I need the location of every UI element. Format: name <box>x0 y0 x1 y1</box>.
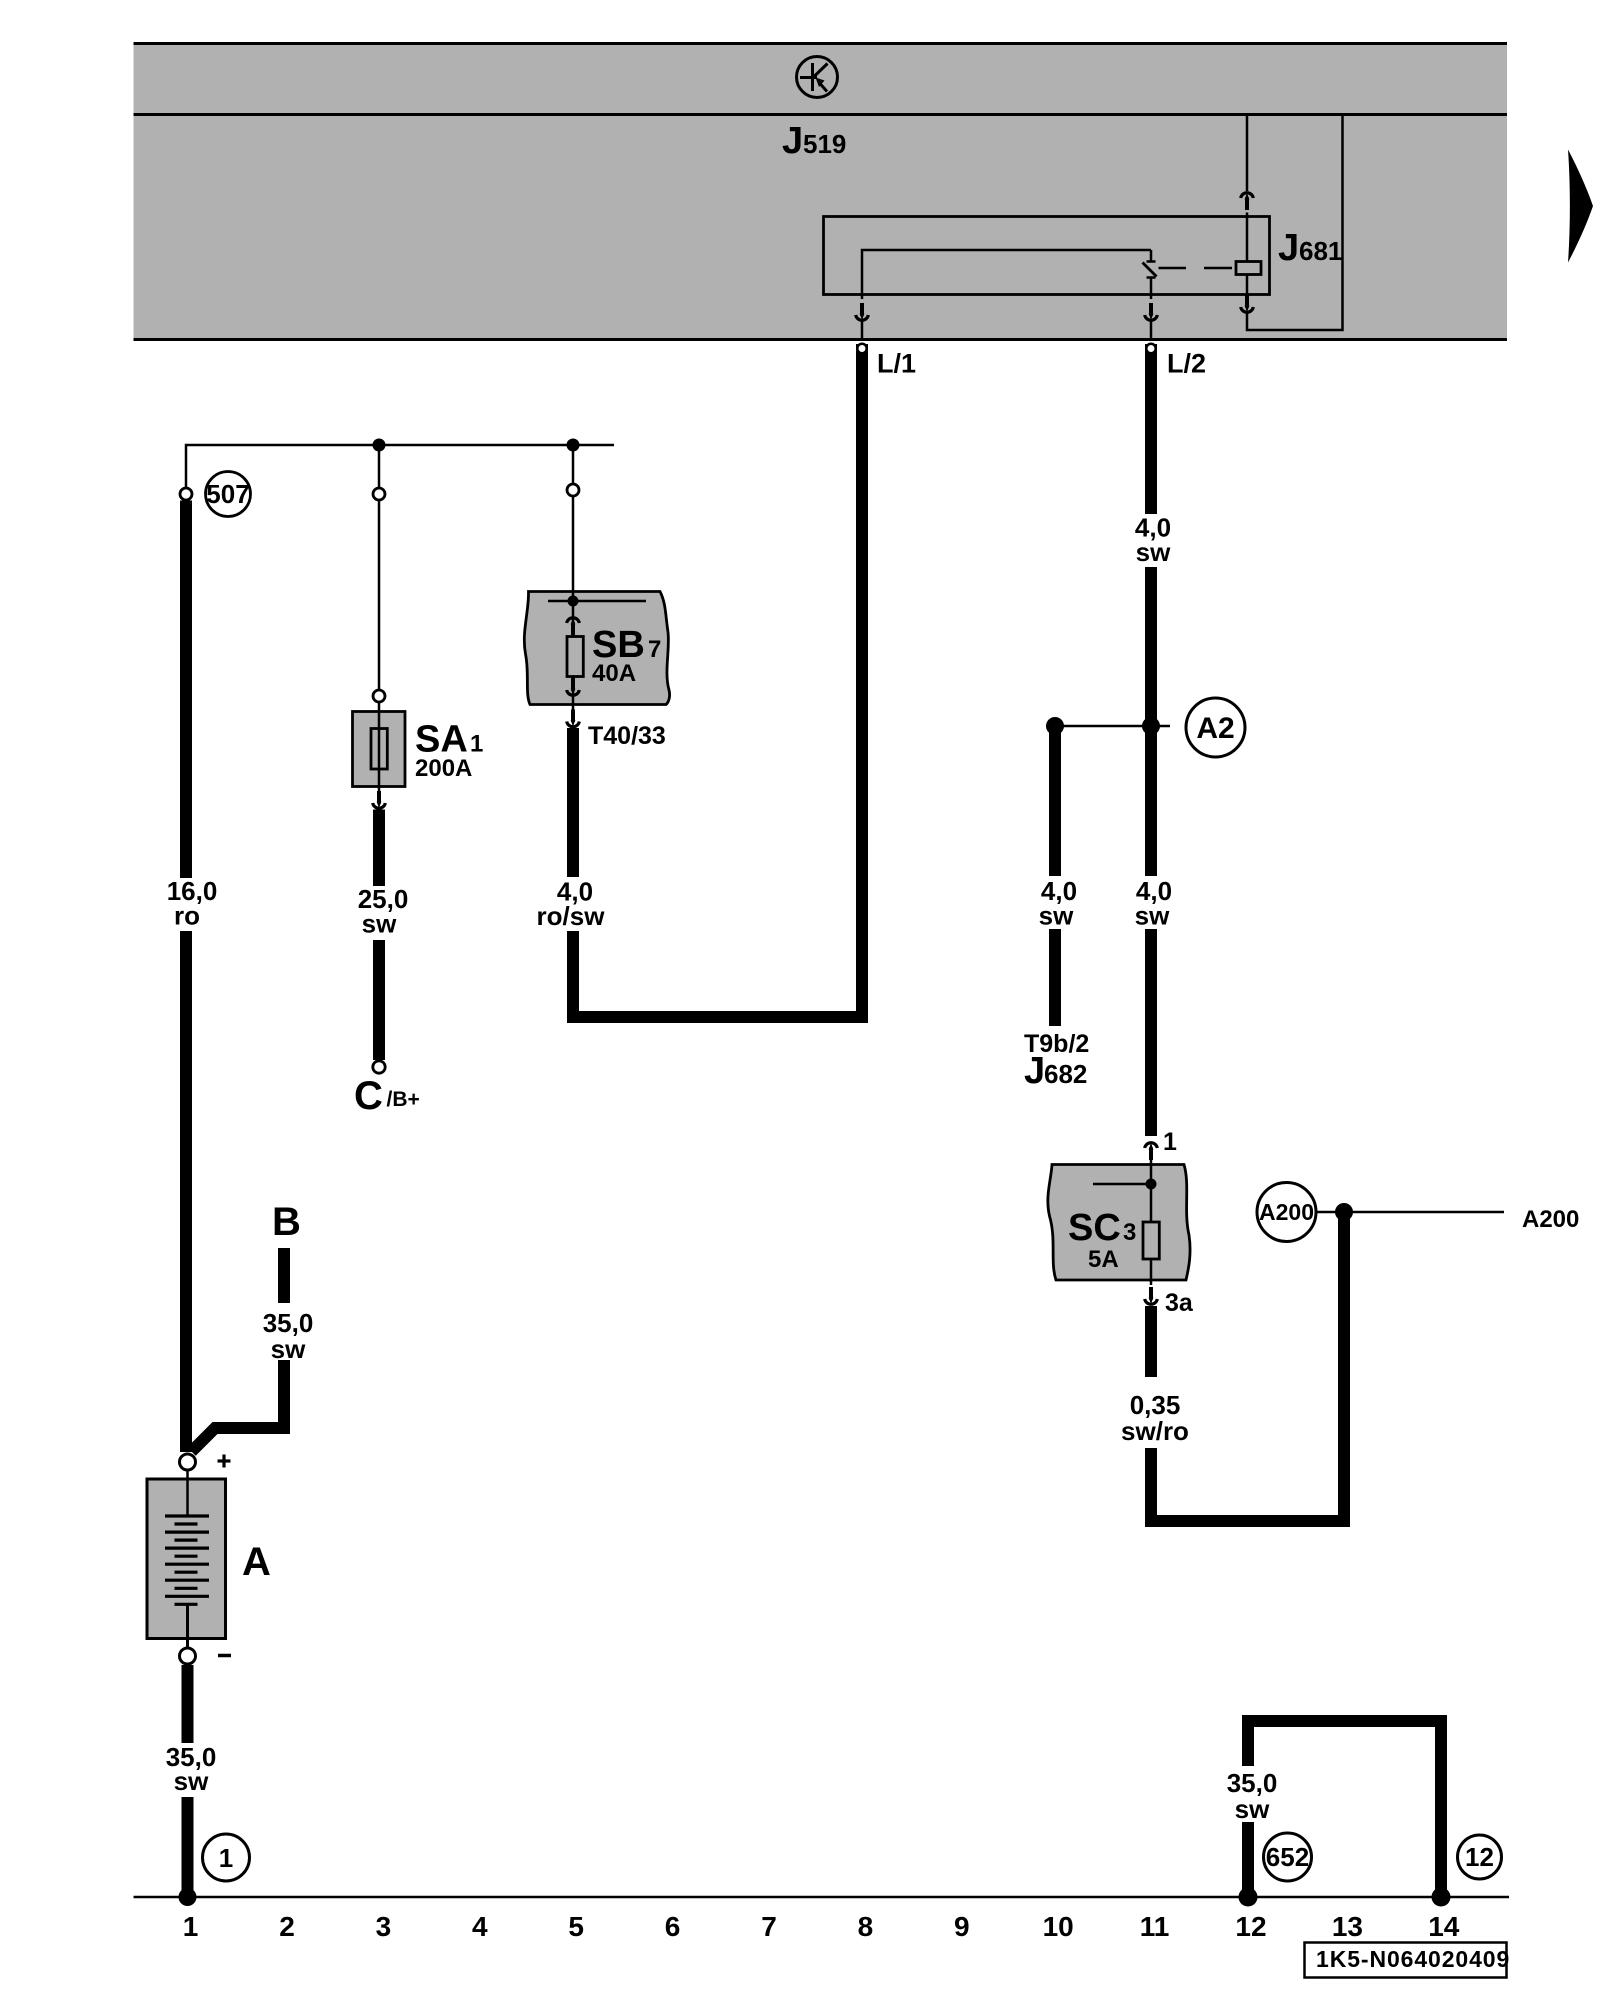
svg-text:1: 1 <box>219 1843 233 1873</box>
wire 0,35 sw/ro loop to node A200 <box>1151 1213 1344 1521</box>
wire from B to battery positive <box>192 1360 285 1452</box>
wire from fuse SC3 to box edge <box>1150 1259 1153 1285</box>
minus sign <box>218 1654 231 1658</box>
battery cell plates <box>165 1516 209 1604</box>
svg-text:A200: A200 <box>1259 1199 1314 1225</box>
connector arrow down at output L/1 <box>856 303 869 320</box>
svg-text:14: 14 <box>1428 1911 1460 1942</box>
wire 16,0 ro lower segment <box>180 931 192 1452</box>
branch wire to node A2 <box>1055 725 1170 728</box>
svg-text:A2: A2 <box>1196 712 1234 745</box>
thick wire 4,0 ro/sw from T40/33 <box>567 728 579 877</box>
terminal symbol K in circle <box>797 57 838 98</box>
ground junction dot battery <box>179 1888 197 1906</box>
svg-text:sw: sw <box>271 1334 306 1364</box>
wire 35,0 sw battery to ground upper segment <box>182 1665 194 1743</box>
wire label 16,0 ro <box>167 876 218 931</box>
svg-text:J: J <box>782 120 803 162</box>
svg-text:682: 682 <box>1044 1059 1087 1089</box>
terminal circle at SA1 input <box>373 690 385 702</box>
junction dot in SC3 box <box>1146 1179 1157 1190</box>
wire L/2 to fuse SC3 <box>1145 929 1157 1136</box>
svg-text:2: 2 <box>279 1911 295 1942</box>
wire label 35,0 sw at B <box>263 1308 314 1364</box>
ground junction dot track 14 <box>1432 1888 1451 1907</box>
junction dot on L/2 at A2 <box>1142 717 1160 735</box>
svg-text:T40/33: T40/33 <box>588 722 666 750</box>
fuse SA1 housing <box>353 712 406 787</box>
wire coil bottom lead <box>1246 275 1249 297</box>
wire L/2 middle segment <box>1145 567 1157 726</box>
svg-text:7: 7 <box>648 636 661 663</box>
svg-text:4: 4 <box>472 1911 488 1942</box>
svg-text:sw: sw <box>362 909 397 939</box>
wire 0,35 sw/ro upper segment <box>1145 1306 1157 1377</box>
fuse box SB7 torn outline <box>524 592 669 705</box>
fuse element SC3 <box>1143 1222 1159 1259</box>
wire from relay contact to output L/1 <box>862 250 1151 299</box>
plus sign <box>218 1455 231 1468</box>
battery negative lead <box>186 1605 189 1649</box>
thick wire from L/2 down <box>1145 344 1157 514</box>
fuse box SC3 torn outline <box>1048 1165 1190 1281</box>
continuation arrow to next current track <box>1568 150 1593 263</box>
svg-text:200A: 200A <box>415 755 472 782</box>
svg-text:A: A <box>242 1540 271 1584</box>
connector arrow down at T40/33 <box>567 710 580 727</box>
relay switch contact of J681 <box>1143 250 1157 299</box>
fuse element SA1 <box>371 729 387 770</box>
wire coil return loop to internal bus <box>1247 115 1343 331</box>
wire from bus to SB7 <box>572 445 575 484</box>
control unit J519 body <box>134 44 1508 340</box>
svg-text:J: J <box>1278 227 1299 269</box>
wire label 35,0 sw at battery ground <box>166 1742 217 1796</box>
svg-text:sw: sw <box>1235 1794 1270 1824</box>
battery positive terminal circle <box>180 1454 196 1470</box>
label SA1 200A <box>415 719 483 783</box>
svg-text:C: C <box>354 1074 383 1118</box>
wire coil top lead <box>1246 213 1249 262</box>
label SB7 40A <box>592 624 661 687</box>
svg-text:B: B <box>272 1200 301 1244</box>
svg-text:1: 1 <box>1163 1128 1177 1156</box>
terminal circle above SB7 <box>567 484 579 496</box>
junction dot at A200 <box>1335 1203 1353 1221</box>
wire 4,0 sw to J682 lower segment <box>1049 929 1061 1026</box>
wire rail to fuse SB7 <box>572 601 575 637</box>
socket circle at L/2 band exit <box>1146 344 1155 353</box>
terminal circle above SA1 <box>373 488 385 500</box>
svg-text:507: 507 <box>206 479 249 509</box>
battery A housing <box>147 1479 226 1639</box>
svg-text:SC: SC <box>1068 1207 1121 1249</box>
svg-text:sw/ro: sw/ro <box>1121 1416 1189 1446</box>
battery negative terminal circle <box>180 1648 196 1664</box>
svg-text:7: 7 <box>761 1911 777 1942</box>
wire label 4,0 sw at J682 <box>1039 876 1077 931</box>
ground junction dot track 12 <box>1239 1888 1258 1907</box>
svg-text:/B+: /B+ <box>387 1088 420 1111</box>
wire 4,0 sw to J682 upper segment <box>1049 726 1061 876</box>
wire through fuse SA1 <box>378 703 381 798</box>
label J519 <box>782 120 846 162</box>
label SC3 5A <box>1068 1207 1136 1273</box>
wire from internal bus to coil top <box>1246 115 1249 192</box>
svg-text:L/1: L/1 <box>877 349 916 379</box>
fuse element SB7 <box>567 637 583 677</box>
wire into fuse SA1 <box>378 501 381 690</box>
wire label 0,35 sw/ro <box>1121 1390 1189 1446</box>
svg-text:12: 12 <box>1465 1842 1494 1872</box>
svg-text:sw: sw <box>174 1766 209 1796</box>
wire L/2 below A2 <box>1145 726 1157 876</box>
relay J681 outline box <box>824 217 1270 295</box>
wire 16,0 ro upper segment <box>180 501 192 879</box>
node circle A2 <box>1186 698 1245 757</box>
wire label 35,0 sw at ground 652 <box>1227 1768 1278 1824</box>
connector arrow down at SC3 pin 3a <box>1145 1287 1158 1304</box>
ground rail <box>134 1896 1510 1899</box>
svg-text:681: 681 <box>1299 236 1342 266</box>
wire into SC3 box <box>1150 1160 1153 1222</box>
svg-text:12: 12 <box>1235 1911 1266 1942</box>
terminal circle at C <box>373 1061 385 1073</box>
junction dot in SB7 box <box>568 596 579 607</box>
svg-text:sw: sw <box>1039 901 1074 931</box>
connector arrow down at SB7 output <box>567 678 580 695</box>
wire 35,0 sw from B upper segment <box>278 1248 290 1303</box>
svg-text:sw: sw <box>1135 901 1170 931</box>
wire from node A200 to net label <box>1316 1211 1504 1214</box>
current track numbers 1-14 <box>183 1911 1460 1942</box>
battery positive lead <box>186 1470 189 1516</box>
svg-text:J: J <box>1024 1050 1045 1092</box>
label J682 <box>1024 1050 1087 1092</box>
svg-text:3: 3 <box>1123 1219 1136 1246</box>
svg-text:3a: 3a <box>1165 1289 1194 1317</box>
ground wire 35,0 sw lower segment <box>1242 1822 1254 1897</box>
label C /B+ (alternator terminal) <box>354 1074 420 1118</box>
junction on bus at SA1 column <box>373 439 386 452</box>
connector arrow up at SC3 pin 1 <box>1145 1143 1158 1160</box>
thick wire from L/1 looping to SB7 output <box>573 344 862 1017</box>
svg-text:652: 652 <box>1266 1842 1309 1872</box>
ground node circle 12 <box>1458 1835 1502 1879</box>
wire 35,0 sw to ground rail <box>182 1797 194 1897</box>
svg-text:6: 6 <box>665 1911 681 1942</box>
svg-text:1K5-N064020409: 1K5-N064020409 <box>1316 1946 1510 1972</box>
terminal circle on battery feed wire <box>180 488 192 500</box>
wire from fuse SB7 to box edge <box>572 677 575 705</box>
svg-text:ro: ro <box>174 901 200 931</box>
positive supply bus wire <box>186 445 614 488</box>
svg-text:1: 1 <box>183 1911 199 1942</box>
svg-text:sw: sw <box>1136 537 1171 567</box>
ground wire loop tracks 12 to 14 <box>1248 1721 1441 1897</box>
svg-text:13: 13 <box>1332 1911 1363 1942</box>
svg-text:40A: 40A <box>592 660 636 687</box>
junction dot at J682 branch <box>1046 717 1064 735</box>
svg-text:3: 3 <box>376 1911 392 1942</box>
ground node circle 1 <box>203 1834 250 1881</box>
node circle 507 <box>206 472 251 517</box>
connector arrow down at coil return <box>1241 295 1254 312</box>
node circle A200 <box>1257 1183 1316 1242</box>
label J681 <box>1278 227 1342 269</box>
ground node circle 652 <box>1264 1833 1312 1881</box>
wire from bus to fuse SA1 <box>378 445 381 488</box>
connector arrow down below SA1 <box>373 791 386 808</box>
svg-text:8: 8 <box>858 1911 874 1942</box>
wire 25,0 sw lower segment <box>373 940 385 1060</box>
svg-text:1: 1 <box>470 731 483 758</box>
svg-text:10: 10 <box>1043 1911 1074 1942</box>
svg-text:5: 5 <box>568 1911 584 1942</box>
connector arrow up at coil supply <box>1241 193 1254 210</box>
wire label 4,0 ro/sw <box>537 877 606 932</box>
svg-text:519: 519 <box>803 129 846 159</box>
wire L/2 to band edge <box>1150 319 1153 341</box>
svg-text:11: 11 <box>1140 1911 1170 1942</box>
svg-text:ro/sw: ro/sw <box>537 901 606 931</box>
wire 25,0 sw upper segment <box>373 810 385 887</box>
wire label 4,0 sw on L/2 <box>1135 513 1171 568</box>
wire into SB7 box <box>572 497 575 602</box>
relay coil of J681 <box>1236 262 1261 275</box>
connector arrow down at output L/2 <box>1145 303 1158 320</box>
wire label 4,0 sw on L/2 lower <box>1135 876 1172 931</box>
junction on bus at SB7 column <box>567 439 580 452</box>
actuating link dashes from contact to coil <box>1159 267 1233 270</box>
socket circle at L/1 band exit <box>857 344 866 353</box>
svg-text:L/2: L/2 <box>1167 349 1206 379</box>
wire label 25,0 sw <box>358 884 409 939</box>
svg-text:9: 9 <box>954 1911 970 1942</box>
svg-text:5A: 5A <box>1088 1246 1119 1273</box>
connector arrow up at SB7 input <box>567 618 580 635</box>
wire L/1 to band edge <box>861 319 864 341</box>
drawing number box 1K5-N064020409 <box>1305 1943 1511 1978</box>
wire below SB7 box <box>572 705 575 713</box>
internal supply rail in SB7 box <box>548 600 646 603</box>
internal rail in SC3 box <box>1093 1183 1151 1186</box>
svg-text:A200: A200 <box>1522 1206 1579 1233</box>
